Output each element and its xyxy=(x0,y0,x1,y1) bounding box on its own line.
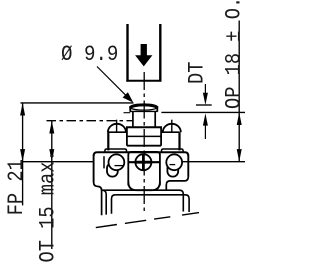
right dome (head screw) xyxy=(163,120,181,133)
body left edge xyxy=(93,156,95,183)
left mounting slot (keyhole) xyxy=(107,154,124,176)
plunger cylinder xyxy=(132,112,134,128)
RP/OP level line (right) xyxy=(161,111,245,113)
svg-text:DT: DT xyxy=(185,62,210,84)
RP dash left of plunger xyxy=(124,112,131,114)
body bottom-left S corner into left leg xyxy=(94,182,102,215)
leader arrowhead xyxy=(123,92,134,102)
boss bottom line xyxy=(127,145,161,147)
body top line xyxy=(94,152,189,156)
plunger cap xyxy=(130,105,158,112)
body right step xyxy=(166,177,188,191)
OP travel dash-dot line xyxy=(47,120,134,122)
right mounting slot (keyhole) xyxy=(166,154,182,176)
svg-text:OP 18 ± O.: OP 18 ± O. xyxy=(222,0,245,109)
inner contour line across xyxy=(115,195,189,212)
svg-text:Ø 9.9: Ø 9.9 xyxy=(61,43,118,68)
head boss sides xyxy=(126,127,128,146)
leader line to plunger xyxy=(97,67,130,100)
FP dimension line xyxy=(22,103,24,205)
DT dimension arrows xyxy=(204,84,206,94)
head boss top xyxy=(126,126,162,128)
head top lines xyxy=(108,131,127,133)
slot clamp bar xyxy=(103,156,105,168)
oval hole bosses on body top xyxy=(105,149,127,152)
OP dimension line xyxy=(238,21,240,162)
actuation direction arrow (solid) xyxy=(135,44,152,66)
panel mounting-level line xyxy=(128,161,160,163)
OT dimension line xyxy=(51,121,53,249)
body right edge xyxy=(187,156,189,177)
dia 9.9 label xyxy=(61,43,118,68)
boss inner line xyxy=(127,135,161,137)
diagonal break line (dashed) xyxy=(96,213,199,228)
head sides xyxy=(107,132,109,150)
operating-object channel (U guide) xyxy=(126,24,161,82)
DT tick xyxy=(196,104,212,106)
mounting surface line xyxy=(21,161,94,163)
centre cover panel xyxy=(128,152,160,186)
left dome (head screw) xyxy=(108,120,126,133)
svg-text:FP 21: FP 21 xyxy=(5,159,30,215)
center screw xyxy=(135,154,153,171)
vertical centerline xyxy=(143,72,145,214)
FP level line xyxy=(21,102,134,104)
svg-text:OT 15 max.: OT 15 max. xyxy=(36,150,61,262)
middle contour line across xyxy=(102,190,183,211)
